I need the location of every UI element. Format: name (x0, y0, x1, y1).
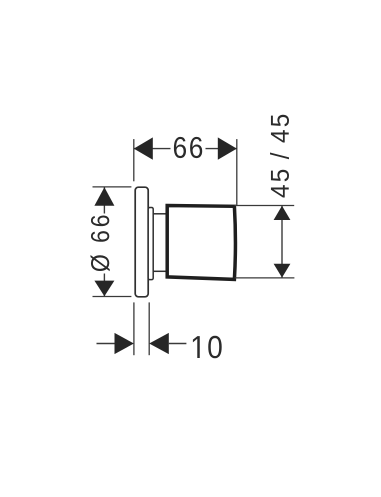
dim 45/45: top extension line (235, 205, 295, 207)
dim 45/45: up arrowhead (274, 206, 291, 220)
dim Ø66: bottom extension line (93, 296, 132, 298)
dim 66: right arrowhead (218, 137, 237, 159)
dim 10: label text (193, 336, 222, 359)
dim 66: left extension line (133, 139, 135, 181)
stem bottom line (153, 270, 168, 272)
flange ring behind handle (148, 208, 153, 280)
dim Ø66: dimension line (103, 187, 105, 297)
dim Ø66: label text rotated (87, 214, 112, 274)
stem top line (153, 213, 168, 215)
dim 66: dimension line (134, 148, 237, 150)
dim Ø66: down arrowhead (94, 281, 114, 297)
dim Ø66: top extension line (93, 186, 132, 188)
dim 10: left arrowhead pointing right (115, 333, 134, 354)
dim 45/45: label text rotated (270, 115, 289, 198)
dim 45/45: down arrowhead (274, 264, 291, 278)
escutcheon plate (side view, rounded rectangle) (135, 187, 148, 297)
dim 10: right extension line (148, 302, 150, 355)
dim 45/45: bottom extension line (235, 277, 295, 279)
dim 10: left extension line (133, 302, 135, 355)
dim 10: right arrowhead pointing left (149, 333, 169, 354)
dim 10: left tail line (97, 343, 115, 345)
handle knob (thick outline, tapered) (167, 206, 235, 280)
dim 66: right extension line (236, 139, 238, 205)
dim Ø66: up arrowhead (94, 187, 114, 206)
dim 66: label text (171, 137, 206, 159)
dim 45/45: dimension line (281, 206, 283, 278)
dim 10: right tail line (169, 343, 187, 345)
dim 66: left arrowhead (134, 137, 153, 159)
